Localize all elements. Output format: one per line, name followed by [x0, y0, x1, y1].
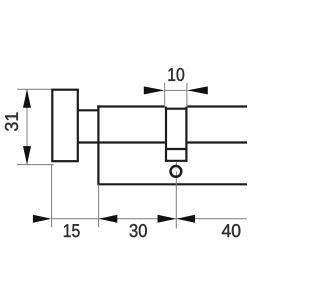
arrow up (31): [23, 89, 31, 108]
label 10: [168, 68, 184, 81]
body top line left segment: [97, 105, 165, 107]
body mid line left segment: [78, 141, 165, 143]
knob (thumbturn): [52, 90, 78, 162]
cam notch inner line: [166, 148, 186, 150]
arrow 30 right (points right): [158, 215, 177, 223]
extension line bottom left (knob face): [51, 165, 53, 228]
arrow 15/30 shared (points left): [99, 215, 118, 223]
cam centerline upper segment: [175, 162, 177, 165]
arrow 10 left (points right): [144, 86, 165, 94]
arrow 40 left (points left): [177, 215, 196, 223]
cam notch left wall: [165, 107, 167, 162]
arrow 10 right (points left): [187, 86, 208, 94]
neck top line: [78, 109, 100, 111]
body mid line right segment: [188, 141, 248, 143]
cam notch bottom line: [165, 160, 188, 162]
dimension line 10: [165, 89, 187, 91]
body bottom line: [97, 183, 247, 185]
body top line right segment: [188, 105, 248, 107]
cam centerline: [175, 178, 177, 228]
extension line bottom (31 dim, lower): [17, 164, 54, 166]
extension line 10 left: [164, 83, 166, 107]
label 40: [222, 224, 240, 237]
dimension line 31 (vertical): [26, 89, 28, 164]
cam screw circle: [171, 166, 182, 177]
label 31: [5, 112, 18, 130]
bottom dimension line: [52, 218, 247, 220]
extension line 10 right: [186, 83, 188, 107]
cam centerline inside circle: [175, 171, 177, 177]
cam notch right wall: [185, 107, 187, 162]
arrow down (31): [23, 146, 31, 165]
cam notch top line: [165, 108, 188, 110]
label 15: [64, 224, 80, 237]
cam screw circle mask: [171, 166, 182, 177]
arrow 15 left (points right): [33, 215, 52, 223]
extension line top (31 dim, upper): [17, 88, 53, 90]
extension line bottom middle (body face): [98, 184, 100, 227]
label 30: [130, 224, 147, 237]
body left edge: [97, 105, 99, 184]
